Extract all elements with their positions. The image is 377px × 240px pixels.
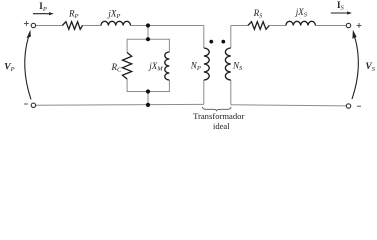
svg-text:jXM: jXM [148,61,163,73]
voltage arc VS [352,30,358,99]
label NP [190,61,201,73]
wire secondary vertical [230,26,232,105]
svg-text:Transformador: Transformador [193,111,244,121]
resistor RC [123,53,132,80]
wire bottom primary [36,103,204,106]
label IP [39,1,47,13]
svg-text:RC: RC [111,62,123,74]
svg-text:VS: VS [365,62,375,73]
plus sign right [357,23,362,28]
transformer primary winding NP [204,48,209,80]
svg-text:jXP: jXP [107,9,120,21]
svg-text:ideal: ideal [213,121,230,131]
label Transformador ideal [193,111,244,131]
svg-text:IS: IS [337,0,345,12]
transformer secondary winding NS [225,48,230,80]
resistor RP [62,22,82,30]
label jXM [148,61,163,73]
svg-text:NP: NP [190,61,201,73]
voltage arc VP [25,30,31,100]
label VP [4,62,14,73]
node junction box bottom [146,89,150,93]
inductor jXP [101,21,131,25]
inductor jXM [165,52,170,80]
label jXS [295,7,308,19]
minus sign right [357,105,361,107]
terminal bottom left [31,103,35,107]
minus sign left [24,103,28,105]
polarity dot primary [209,40,213,44]
resistor RS [248,22,269,30]
wire bottom secondary [231,105,346,106]
current arrow IP [33,12,54,15]
node junction bottom [146,103,150,107]
label RP [68,9,79,21]
svg-text:jXS: jXS [295,7,308,19]
label VS [365,62,375,73]
underbrace transformer [202,107,231,111]
node junction box top [146,37,150,41]
label IS [337,0,345,12]
wire primary vertical [203,26,205,105]
svg-text:RS: RS [253,8,264,20]
svg-text:RP: RP [68,9,79,21]
polarity dot secondary [221,40,225,44]
terminal top left [31,23,35,27]
svg-text:IP: IP [39,1,47,13]
wire shunt stub bottom [147,92,149,105]
wire top primary [36,25,204,27]
label jXP [107,9,120,21]
node junction top [146,23,150,27]
label RC [111,62,123,74]
svg-text:VP: VP [4,62,14,73]
wire shunt stub top [147,26,149,40]
label RS [253,8,264,20]
terminal bottom right [346,104,350,108]
inductor jXS [286,21,316,25]
label NS [232,61,243,73]
wire top secondary [231,25,346,27]
plus sign left [24,21,29,26]
terminal top right [346,23,350,27]
svg-text:NS: NS [232,61,243,73]
wire shunt box top rail [127,39,169,52]
wire shunt box bottom rail [127,79,169,92]
current arrow IS [331,11,352,14]
